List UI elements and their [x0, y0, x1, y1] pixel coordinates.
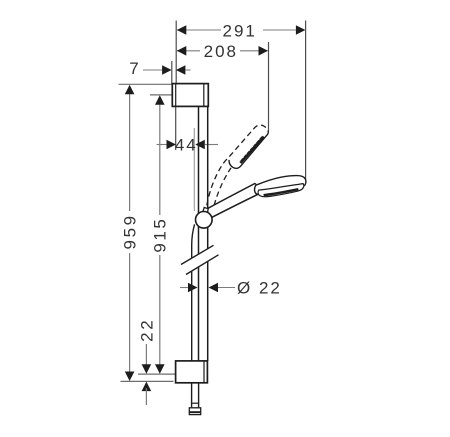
bottom bracket	[176, 361, 208, 383]
head spray face plate	[258, 184, 304, 197]
dashed head bottom cap solid	[229, 160, 235, 168]
svg-text:291: 291	[223, 21, 257, 40]
dimension line 291	[177, 25, 306, 35]
svg-text:959: 959	[120, 213, 139, 249]
hand shower solid: head	[255, 176, 306, 197]
dimension line 208	[177, 46, 268, 56]
dimension 44 center grey line	[193, 128, 195, 211]
svg-text:915: 915	[151, 217, 170, 253]
dimension 208 extension line right	[268, 42, 270, 132]
dimension line diameter 22	[180, 283, 235, 293]
svg-text:44: 44	[175, 135, 198, 154]
dimension line 22 upper	[142, 344, 152, 374]
head spray face dark band	[264, 189, 299, 195]
dimension 291 extension line left	[175, 21, 177, 85]
hand shower solid: handle	[207, 183, 258, 217]
hose nut	[189, 408, 200, 415]
svg-text:22: 22	[138, 318, 157, 342]
holder knob	[196, 212, 213, 229]
dimension line 959	[125, 85, 135, 381]
dimension line 7	[143, 65, 191, 75]
dashed head right edge solid	[235, 133, 268, 169]
959 bottom reference line	[121, 380, 174, 382]
dimension 7 extension line	[171, 61, 173, 85]
915 top reference line	[150, 94, 173, 96]
dashed handle right edge	[214, 168, 231, 206]
dashed handle left edge into head left edge and top cap	[207, 160, 229, 205]
slide bar	[199, 106, 208, 361]
svg-text:7: 7	[129, 59, 138, 78]
svg-text:Ø 22: Ø 22	[237, 279, 282, 298]
dimension 44 extension line below bracket	[175, 107, 177, 150]
dashed head spray face dark band	[240, 136, 263, 163]
915 bottom reference line	[138, 373, 175, 375]
dimension line 44	[157, 140, 219, 150]
dimension line 22 lower pointer	[142, 382, 152, 405]
dashed head spray face scallop nicks	[240, 135, 263, 161]
shower hose	[192, 224, 195, 361]
hand shower dashed alternate position	[207, 125, 268, 205]
head body	[255, 176, 306, 195]
neck step	[254, 183, 257, 185]
wall bracket top	[172, 84, 208, 107]
break symbol	[181, 245, 219, 274]
svg-text:208: 208	[204, 42, 238, 61]
959 top reference line	[119, 83, 173, 85]
hose connector below bracket	[192, 383, 199, 408]
dimension line 915	[155, 95, 165, 374]
holder knob tab	[203, 207, 208, 212]
dimension 291 extension line right	[305, 21, 307, 183]
